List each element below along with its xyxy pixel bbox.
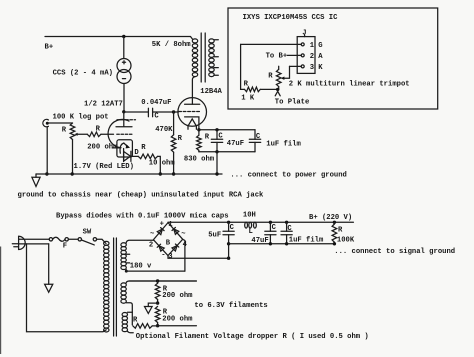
- svg-text:To Plate: To Plate: [275, 99, 310, 107]
- pin 2 A: [287, 54, 301, 56]
- bridge diode top-right: [174, 229, 179, 235]
- svg-text:Optional Filament Voltage drop: Optional Filament Voltage dropper R ( I …: [136, 333, 369, 341]
- svg-text:R: R: [141, 144, 146, 152]
- 12B4A cathode: [185, 117, 199, 130]
- node plate of 12AT7: [122, 110, 125, 113]
- svg-text:C: C: [154, 113, 159, 121]
- wire bypass node to bus: [216, 152, 218, 174]
- node grid junction: [172, 110, 175, 113]
- current source CCS: [117, 59, 131, 73]
- svg-text:2 K multiturn linear trimpot: 2 K multiturn linear trimpot: [289, 81, 410, 89]
- svg-text:... connect to signal ground: ... connect to signal ground: [334, 248, 455, 256]
- svg-text:C: C: [230, 224, 235, 232]
- svg-text:1uF film: 1uF film: [266, 140, 301, 148]
- svg-text:180 v: 180 v: [130, 263, 152, 271]
- wire LED to R 10ohm: [131, 155, 138, 157]
- wire jack shield to bus: [46, 127, 48, 174]
- svg-text:To B+: To B+: [266, 52, 288, 60]
- svg-text:1/2 12AT7: 1/2 12AT7: [84, 101, 123, 109]
- fuse F: [49, 238, 52, 241]
- svg-text:to 6.3V filaments: to 6.3V filaments: [194, 302, 267, 310]
- wire gate to 1K: [241, 44, 245, 89]
- psu signal ground rail: [229, 243, 335, 245]
- svg-text:R: R: [338, 227, 343, 235]
- filament supply wires: [129, 280, 196, 282]
- pot wiper arrow: [75, 133, 78, 136]
- T2 6.3V winding A: [121, 283, 126, 287]
- svg-text:+: +: [160, 220, 164, 228]
- wire pot bottom to bus: [72, 140, 74, 175]
- wire K pin to wiper: [284, 66, 290, 78]
- T2 core: [114, 238, 117, 336]
- wire cathode node right: [199, 129, 255, 131]
- cathode bar: [113, 147, 121, 149]
- svg-text:G: G: [318, 42, 322, 50]
- AC plug P1: [19, 236, 26, 249]
- svg-text:R: R: [178, 135, 183, 143]
- T2 HV secondary 180V: [121, 243, 126, 247]
- svg-text:ground to chassis near (cheap): ground to chassis near (cheap) uninsulat…: [18, 191, 265, 199]
- svg-text:5K / 8ohm: 5K / 8ohm: [152, 41, 192, 49]
- bridge diode bottom-left: [159, 246, 164, 251]
- svg-text:830 ohm: 830 ohm: [184, 156, 215, 164]
- svg-text:3: 3: [310, 64, 314, 72]
- svg-text:2: 2: [310, 53, 314, 61]
- bridge diode bottom-right: [172, 246, 177, 251]
- svg-text:~: ~: [181, 230, 185, 238]
- svg-text:B+ (220 V): B+ (220 V): [309, 214, 352, 222]
- node To Plate: [275, 91, 280, 96]
- svg-text:C: C: [287, 225, 292, 233]
- wire bridge AC right leg: [183, 239, 185, 271]
- plate lead and bar: [116, 112, 132, 127]
- wire hot to fuse: [19, 238, 49, 240]
- T1 secondary winding: [209, 39, 214, 43]
- grid dashes upper: [117, 119, 124, 121]
- svg-text:2: 2: [149, 241, 153, 249]
- filament bottom wire: [158, 325, 197, 327]
- svg-text:1.7V (Red LED): 1.7V (Red LED): [74, 163, 134, 171]
- ground bus: [36, 173, 222, 175]
- svg-text:10 ohm: 10 ohm: [149, 160, 176, 168]
- svg-text:3: 3: [168, 253, 172, 261]
- 12B4A filament: [188, 119, 196, 129]
- wire CCS to plate node: [123, 84, 125, 112]
- svg-text:1 K: 1 K: [241, 95, 255, 103]
- svg-text:R: R: [62, 126, 67, 134]
- LED box: [117, 140, 132, 157]
- svg-text:CCS (2 - 4 mA): CCS (2 - 4 mA): [53, 70, 113, 78]
- grid wire lower with dashes: [101, 133, 114, 135]
- svg-text:470K: 470K: [155, 126, 173, 134]
- scan edge artifact: [0, 247, 2, 355]
- svg-text:100K: 100K: [337, 237, 355, 245]
- wire B+ rail: [45, 37, 192, 40]
- svg-text:D: D: [134, 149, 139, 157]
- resistor R 100K bleeder: [333, 221, 336, 224]
- svg-text:K: K: [318, 64, 323, 72]
- capacitor C 1uF film psu: [285, 221, 288, 224]
- svg-text:F: F: [63, 242, 67, 250]
- svg-text:SW: SW: [83, 229, 92, 237]
- svg-text:200 ohm: 200 ohm: [162, 292, 193, 300]
- svg-text:A: A: [318, 53, 323, 61]
- svg-text:R: R: [268, 72, 273, 80]
- T2 6.3V winding B: [122, 313, 127, 317]
- pin 1 G: [241, 43, 302, 45]
- svg-text:10H: 10H: [243, 211, 256, 219]
- cathode bypass bottom wire: [199, 151, 255, 153]
- RCA input jack: [43, 119, 49, 126]
- wire neutral drop to primary: [27, 244, 107, 332]
- IXYS info box: [228, 8, 438, 109]
- bridge rectifier B: [153, 223, 182, 256]
- wire rail to CCS: [123, 37, 125, 59]
- svg-text:~: ~: [150, 230, 154, 238]
- svg-text:200 ohm: 200 ohm: [162, 315, 193, 323]
- svg-text:100 K log pot: 100 K log pot: [53, 114, 109, 122]
- svg-text:IXYS IXCP10M45S CCS IC: IXYS IXCP10M45S CCS IC: [243, 14, 339, 22]
- junction on B+ rail: [122, 35, 125, 38]
- pin 3 K: [290, 65, 302, 67]
- T1 primary winding: [192, 39, 197, 43]
- chassis arrow from mains: [48, 244, 50, 284]
- svg-text:-: -: [161, 252, 165, 260]
- virtual center tap to ground arrow: [148, 303, 157, 306]
- capacitor C 47uF psu: [269, 221, 272, 224]
- wire plate node to coupling cap: [124, 111, 148, 113]
- wire cap to 12B4A grid: [153, 111, 179, 113]
- wire bridge minus to psu ground: [168, 256, 229, 259]
- chassis ground symbol: [35, 174, 37, 177]
- svg-text:... connect to power ground: ... connect to power ground: [230, 171, 346, 179]
- T1 secondary taps: [214, 40, 219, 75]
- LED D red: [123, 149, 125, 162]
- svg-text:47uF: 47uF: [227, 140, 244, 148]
- wire 10ohm to ground bus: [158, 156, 161, 174]
- cathode hook arrow inside box: [120, 143, 127, 153]
- 12B4A plate bar: [185, 103, 200, 105]
- svg-text:200 ohm: 200 ohm: [87, 144, 118, 152]
- T1 core: [201, 33, 205, 82]
- svg-text:B: B: [166, 239, 171, 247]
- svg-text:L: L: [249, 228, 253, 236]
- 12B4A grid dashes: [179, 111, 200, 113]
- svg-text:5uF: 5uF: [208, 232, 221, 240]
- svg-text:R: R: [205, 133, 210, 141]
- wire neutral: [19, 243, 49, 245]
- T2 primary winding: [104, 241, 109, 245]
- svg-text:C: C: [272, 224, 277, 232]
- B+ rail psu: [168, 221, 353, 223]
- svg-text:Bypass diodes with 0.1uF 1000V: Bypass diodes with 0.1uF 1000V mica caps: [56, 212, 229, 220]
- svg-text:B+: B+: [45, 43, 54, 51]
- svg-text:1: 1: [310, 42, 315, 50]
- bridge diode top-left: [157, 229, 162, 235]
- svg-text:0.047uF: 0.047uF: [141, 99, 171, 107]
- svg-text:12B4A: 12B4A: [200, 88, 222, 96]
